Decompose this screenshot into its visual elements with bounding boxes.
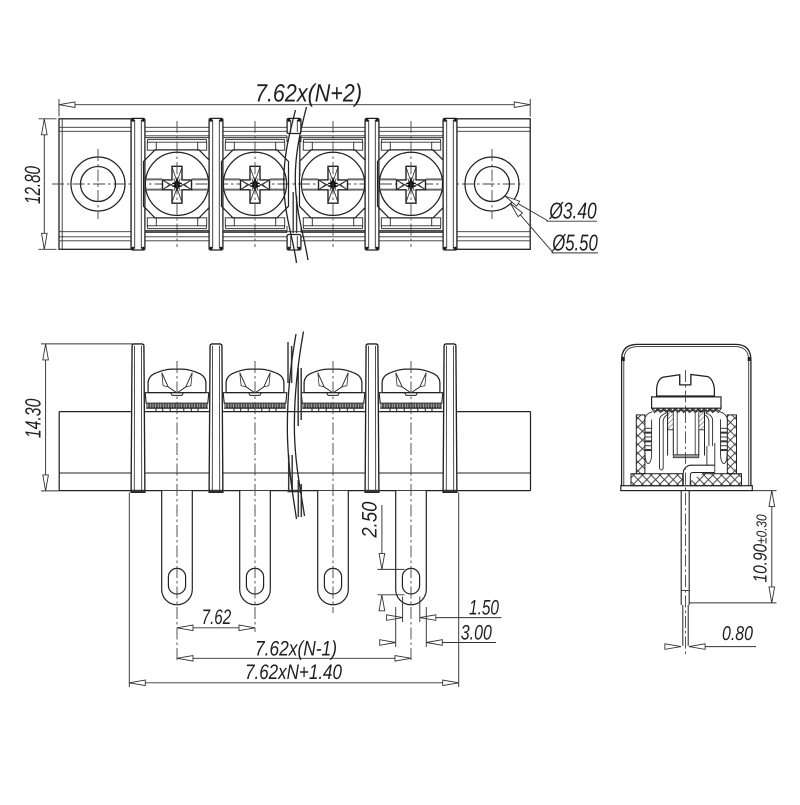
dimension 10.90±0.30 xyxy=(689,491,776,603)
screw position 1 xyxy=(144,121,211,247)
svg-text:7.62: 7.62 xyxy=(202,606,232,629)
mounting hole right inner xyxy=(475,167,510,202)
svg-text:12.80: 12.80 xyxy=(20,165,45,204)
shell corner ticks xyxy=(622,357,625,361)
mounting hole left vertical centerline xyxy=(97,149,99,219)
svg-text:7.62x(N+2): 7.62x(N+2) xyxy=(255,80,362,108)
front body outline xyxy=(59,411,530,413)
front centerline position 1 xyxy=(176,361,178,662)
top view central body edges xyxy=(59,126,530,128)
interior molding lines right xyxy=(704,412,728,464)
side shell outline xyxy=(622,344,751,485)
svg-text:Ø3.40: Ø3.40 xyxy=(548,198,596,224)
svg-text:Ø5.50: Ø5.50 xyxy=(552,230,598,256)
svg-text:7.62x(N-1): 7.62x(N-1) xyxy=(255,637,337,660)
interior molding lines left xyxy=(644,412,668,470)
break line top view left xyxy=(284,110,297,263)
screw shank / clamp cavity xyxy=(655,411,717,458)
solder pin P1 xyxy=(162,491,193,605)
thread hatch right xyxy=(699,411,705,430)
solder pin P2 xyxy=(240,491,271,605)
screw head side xyxy=(657,375,715,397)
barrier wall B5 xyxy=(443,118,457,250)
top view left end plate xyxy=(59,119,131,250)
dimension 14.30 xyxy=(21,344,136,491)
mounting hole right outer xyxy=(465,157,519,211)
front barrier wall B2 xyxy=(209,344,223,492)
dimension 2.50 xyxy=(358,501,404,610)
left wall cross-hatch xyxy=(636,415,645,474)
dimension 0.80 xyxy=(665,623,756,649)
front barrier wall B1 xyxy=(131,344,145,492)
pin bend tube xyxy=(683,443,715,486)
svg-text:14.30: 14.30 xyxy=(21,398,46,438)
base cross-hatch strip xyxy=(631,474,742,486)
svg-text:1.50: 1.50 xyxy=(469,597,499,620)
dimension 7.62x(N+2) xyxy=(59,80,530,117)
svg-text:10.90±0.30: 10.90±0.30 xyxy=(750,515,771,583)
front barrier wall B5 xyxy=(443,344,457,492)
screw position 2 xyxy=(222,121,289,247)
clamp washer side xyxy=(652,397,721,408)
dimension 7.62 (pitch) xyxy=(177,606,255,631)
solder pin P3 xyxy=(318,491,349,605)
barrier B3 fragments between break lines xyxy=(293,136,300,233)
barrier wall B2 xyxy=(209,118,223,250)
mounting hole left outer xyxy=(71,157,125,211)
screw position 4 xyxy=(378,121,445,247)
dimension 12.80 xyxy=(20,119,56,250)
leader dimension Ø5.50 xyxy=(511,204,599,256)
top view right end plate xyxy=(457,119,530,250)
leader dimension Ø3.40 xyxy=(505,196,597,223)
barrier wall B3 (interrupted by break) xyxy=(287,118,301,250)
front centerline position 3 xyxy=(332,361,334,613)
svg-text:0.80: 0.80 xyxy=(722,623,753,645)
dimension 7.62x(N-1) xyxy=(177,637,411,661)
top view left plate inner edge xyxy=(61,119,63,250)
right wall cross-hatch xyxy=(727,415,736,474)
thread hatch left xyxy=(668,411,674,430)
break line front view right xyxy=(294,332,304,517)
svg-text:7.62xN+1.40: 7.62xN+1.40 xyxy=(245,661,342,684)
wire clamp assembly position 2 xyxy=(223,369,287,412)
dimension 1.50 xyxy=(387,597,502,623)
wire clamp assembly position 1 xyxy=(145,369,209,412)
barrier bottom tips xyxy=(132,490,145,493)
pin below base xyxy=(681,491,689,646)
wire clamp assembly position 3 xyxy=(301,369,365,412)
front centerline position 4 xyxy=(410,361,412,662)
screw position 3 xyxy=(300,121,367,247)
screwdriver slot xyxy=(680,375,691,385)
solder pin P4 xyxy=(396,491,427,605)
dimension 7.62xN+1.40 xyxy=(129,493,458,688)
side centerline xyxy=(685,370,687,656)
front barrier wall B4 xyxy=(365,344,379,492)
wire clamp assembly position 4 xyxy=(379,369,443,412)
dimension 3.00 xyxy=(380,607,496,647)
barrier wall B1 xyxy=(131,118,145,250)
washer knurl serration xyxy=(652,408,722,412)
front centerline position 2 xyxy=(254,361,256,632)
front view: terminal block elevation xyxy=(59,332,530,663)
svg-text:2.50: 2.50 xyxy=(358,501,381,538)
break line top view right xyxy=(295,107,308,260)
mounting hole left inner xyxy=(81,167,116,202)
barrier wall B4 xyxy=(365,118,379,250)
mounting hole right vertical centerline xyxy=(491,149,493,219)
top view horizontal centerline xyxy=(52,183,524,185)
front barrier wall B3 (interrupted by break) xyxy=(288,342,301,517)
break line front view left xyxy=(287,334,296,519)
top view: terminal block plan xyxy=(52,107,530,263)
svg-text:3.00: 3.00 xyxy=(461,622,492,645)
base plate xyxy=(621,486,753,491)
side view: sectioned terminal xyxy=(621,344,753,655)
